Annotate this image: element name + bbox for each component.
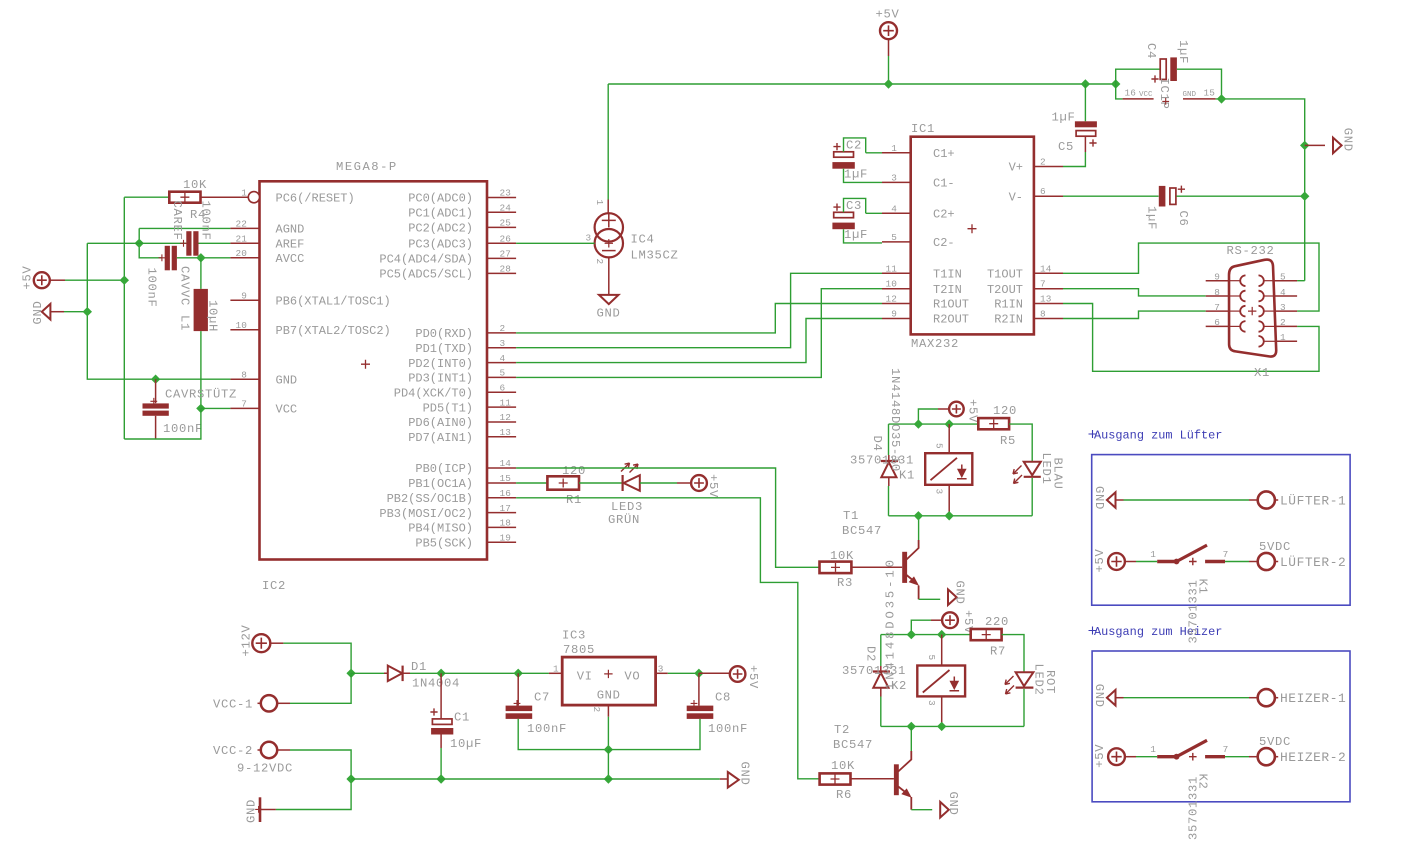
- wire PC3 to LM35 pin3: [516, 242, 595, 244]
- svg-text:VCC-2: VCC-2: [213, 744, 253, 758]
- svg-text:+5V: +5V: [1093, 549, 1107, 573]
- svg-text:K2: K2: [891, 679, 907, 693]
- IC2 pin 18 stub: [487, 526, 516, 528]
- capacitor CAREF plates: [186, 231, 191, 256]
- capacitor CAVRSTUETZ plates: [143, 403, 169, 408]
- IC2 pin 2 stub: [487, 332, 516, 334]
- svg-text:1: 1: [553, 664, 559, 675]
- IC3 pin 2 stub: [607, 705, 609, 717]
- wire D2 anode down: [880, 697, 882, 727]
- svg-text:6: 6: [1214, 317, 1220, 328]
- LÜFTER-2 stub: [1249, 561, 1258, 563]
- svg-text:15: 15: [1204, 88, 1216, 99]
- svg-text:HEIZER-1: HEIZER-1: [1280, 691, 1346, 706]
- svg-text:14: 14: [1040, 263, 1052, 274]
- IC2 pin 21 stub: [230, 242, 259, 244]
- svg-text:PC6(/RESET): PC6(/RESET): [276, 191, 355, 205]
- wire K2 bottom rail: [881, 725, 1024, 727]
- svg-text:PD4(XCK/T0): PD4(XCK/T0): [394, 387, 473, 401]
- svg-text:K1: K1: [899, 469, 915, 483]
- IC4 origin cross: [605, 239, 613, 247]
- IC2 MEGA8-P body: [260, 181, 488, 559]
- svg-text:PC1(ADC1): PC1(ADC1): [408, 207, 473, 221]
- svg-text:GND: GND: [1092, 684, 1106, 708]
- C8 origin cross: [691, 700, 698, 707]
- svg-text:AGND: AGND: [276, 223, 305, 237]
- X1 pin 3 inner lead: [1264, 310, 1275, 312]
- svg-text:C2-: C2-: [933, 236, 955, 250]
- inductor L1 body: [194, 289, 208, 331]
- wire T2OUT to X1 pin8: [1063, 289, 1206, 296]
- svg-text:10K: 10K: [183, 178, 207, 192]
- wire AGND net: [139, 227, 230, 229]
- VCC-2 stub: [277, 749, 290, 751]
- relay contact K2: [1157, 755, 1177, 758]
- svg-text:+5V: +5V: [706, 474, 720, 498]
- capacitor C2 plates: [834, 152, 854, 157]
- svg-text:D2: D2: [864, 646, 878, 662]
- svg-text:5: 5: [1280, 272, 1286, 283]
- svg-text:CAREF: CAREF: [170, 201, 184, 241]
- IC1 pin 11 stub: [882, 272, 911, 274]
- svg-text:C2: C2: [846, 138, 862, 152]
- IC2 pin 27 stub: [487, 257, 516, 259]
- svg-text:VCC-1: VCC-1: [213, 698, 253, 712]
- resistor R1 120: [547, 476, 579, 489]
- svg-text:R7: R7: [990, 645, 1006, 659]
- HEIZER-2 stub: [1249, 756, 1258, 758]
- svg-text:PB2(SS/OC1B): PB2(SS/OC1B): [387, 492, 473, 506]
- wire C2 bottom: [844, 169, 883, 183]
- svg-text:R2OUT: R2OUT: [933, 313, 969, 327]
- diode D2 1N4148: [873, 670, 890, 672]
- svg-text:GND: GND: [953, 581, 967, 605]
- wire +5V to K2 rail: [911, 620, 931, 634]
- svg-text:10µH: 10µH: [206, 300, 220, 332]
- svg-text:C1+: C1+: [933, 147, 955, 161]
- svg-text:PC4(ADC4/SDA): PC4(ADC4/SDA): [379, 253, 473, 267]
- wire T1 emitter to GND: [919, 598, 941, 600]
- ground arrow at bottom rail: [728, 772, 739, 788]
- capacitor C7 plates: [506, 706, 533, 712]
- svg-text:8: 8: [1040, 309, 1046, 320]
- svg-text:C1: C1: [454, 711, 470, 725]
- wire D1 to C1 node: [410, 672, 441, 674]
- svg-text:T1: T1: [843, 509, 859, 523]
- diode D4 1N4148: [881, 460, 898, 462]
- svg-text:7: 7: [1214, 302, 1220, 313]
- capacitor C5 plates: [1075, 121, 1097, 127]
- junction K1 rail A: [914, 419, 923, 428]
- svg-text:10: 10: [885, 279, 897, 290]
- junction K2 rail A: [907, 630, 916, 639]
- svg-text:4: 4: [500, 353, 506, 364]
- X1 pin 9 stub: [1206, 280, 1229, 282]
- svg-text:R3: R3: [837, 576, 853, 590]
- junction C7/C8 gnd: [604, 745, 613, 754]
- IC1 pin 6 stub: [1034, 195, 1063, 197]
- svg-text:X1: X1: [1254, 366, 1270, 380]
- wire +5V rail down to LM35: [607, 84, 609, 200]
- svg-text:7805: 7805: [563, 643, 595, 657]
- svg-text:7: 7: [1040, 279, 1046, 290]
- wire IC3 out to +5V node: [668, 672, 699, 674]
- capacitor C6 plates: [1159, 186, 1166, 207]
- X1 pin 5 socket cup: [1259, 275, 1264, 286]
- C5 bottom stub: [1084, 136, 1086, 152]
- wire R1IN to X1 pin2: [1063, 304, 1319, 372]
- connector pad LÜFTER-2: [1258, 553, 1275, 570]
- junction AVCC/L1 node: [196, 253, 205, 262]
- X1 pin 2 stub: [1275, 325, 1298, 327]
- wire AGND down to AVCC cap: [139, 228, 162, 257]
- resistor R7 220: [971, 629, 1002, 640]
- svg-text:GND: GND: [1092, 486, 1106, 510]
- svg-text:11: 11: [500, 397, 512, 408]
- IC1 pin 4 stub: [882, 212, 911, 214]
- svg-text:100nF: 100nF: [708, 722, 748, 736]
- wire top +5V rail: [608, 83, 1115, 85]
- svg-text:LM35CZ: LM35CZ: [631, 249, 679, 263]
- svg-text:7: 7: [1223, 744, 1229, 755]
- LM35 pin 1 stub: [607, 200, 609, 214]
- wire bottom ground rail: [351, 778, 720, 780]
- svg-text:PD6(AIN0): PD6(AIN0): [408, 416, 473, 430]
- wire R4 to pin1 bubble: [201, 196, 249, 198]
- transistor T1 BC547: [902, 552, 907, 583]
- svg-text:+5V: +5V: [876, 8, 900, 22]
- svg-text:GND: GND: [597, 689, 621, 703]
- resistor R4 10K reset pullup: [169, 192, 200, 203]
- +5V supply symbol left: [34, 272, 50, 288]
- resistor R3 10K: [820, 562, 852, 574]
- +12V supply symbol: [252, 634, 270, 652]
- svg-text:IC2: IC2: [262, 579, 286, 593]
- svg-text:PB5(SCK): PB5(SCK): [415, 536, 473, 550]
- wire C1 bottom stub: [440, 735, 442, 749]
- svg-text:V+: V+: [1009, 161, 1023, 175]
- +5V pin stub: [50, 279, 65, 281]
- junction AGND/AREF node: [135, 239, 144, 248]
- capacitor C1 plates: [432, 719, 452, 725]
- svg-text:T1IN: T1IN: [933, 268, 962, 282]
- svg-text:IC3: IC3: [562, 629, 586, 643]
- svg-text:8: 8: [241, 369, 247, 380]
- svg-text:GND: GND: [31, 301, 45, 325]
- wire C2 to pin: [866, 152, 882, 154]
- junction bottom rail left: [346, 774, 355, 783]
- IC2 pin 23 stub: [487, 197, 516, 199]
- IC1 pin 2 stub: [1034, 166, 1063, 168]
- X1 pin 9 socket cup: [1240, 275, 1245, 286]
- frame 2 origin cross: [1089, 627, 1097, 635]
- IC2 pin 28 stub: [487, 272, 516, 274]
- IC2 pin 25 stub: [487, 226, 516, 228]
- svg-text:1: 1: [1150, 549, 1156, 560]
- wire reset pullup left segment: [124, 196, 169, 198]
- wire K2 +5V rail: [881, 634, 971, 636]
- wire T1 collector up: [918, 516, 920, 540]
- junction C6/GND: [1300, 192, 1309, 201]
- svg-text:9: 9: [891, 309, 897, 320]
- wire to GND pin8: [156, 378, 231, 380]
- svg-text:3: 3: [586, 233, 592, 244]
- svg-text:7: 7: [1223, 549, 1229, 560]
- svg-text:PB0(ICP): PB0(ICP): [415, 462, 473, 476]
- IC2 pin 4 stub: [487, 362, 516, 364]
- svg-text:1: 1: [594, 200, 605, 206]
- +5V stub in K1 frame: [1125, 561, 1136, 563]
- X1 pin 3 socket cup: [1259, 306, 1264, 317]
- junction D1/C1: [436, 669, 445, 678]
- wire K1 +5V rail: [889, 423, 979, 425]
- svg-text:+5V: +5V: [1093, 744, 1107, 768]
- K1 coil pin 3 lead: [948, 485, 950, 516]
- svg-text:PD7(AIN1): PD7(AIN1): [408, 431, 473, 445]
- IC1P pin 16 VCC stub: [1123, 98, 1154, 100]
- +5V stub at LED3: [677, 482, 691, 484]
- wire to D2 cathode: [880, 635, 882, 666]
- svg-text:IC1: IC1: [911, 122, 935, 136]
- wire to C8 bottom: [608, 719, 700, 750]
- svg-text:1µF: 1µF: [1052, 111, 1076, 125]
- relay contact K1: [1157, 560, 1177, 563]
- junction C4/GND15: [1217, 94, 1226, 103]
- K2 coil pin 5 lead: [941, 635, 943, 666]
- svg-text:1: 1: [1280, 332, 1286, 343]
- svg-text:3: 3: [1280, 302, 1286, 313]
- svg-text:5VDC: 5VDC: [1259, 735, 1291, 749]
- +5V supply symbol at K1: [949, 402, 964, 417]
- svg-text:24: 24: [500, 203, 512, 214]
- IC2 pin 14 stub: [487, 467, 516, 469]
- junction C1/rail: [436, 774, 445, 783]
- CAREF origin cross: [180, 240, 187, 247]
- IC2 pin 26 stub: [487, 242, 516, 244]
- wire R7 to LED2: [1002, 635, 1024, 673]
- svg-text:25: 25: [500, 218, 512, 229]
- svg-text:10: 10: [235, 320, 247, 331]
- junction K1 rail B: [945, 419, 954, 428]
- svg-text:BC547: BC547: [842, 524, 882, 538]
- IC1 pin 7 stub: [1034, 288, 1063, 290]
- svg-text:12: 12: [500, 412, 512, 423]
- connector pad GND input: [259, 797, 262, 822]
- wire contact to LÜFTER-2: [1225, 561, 1249, 563]
- svg-text:C8: C8: [715, 691, 731, 705]
- wire +5V to K1 contact: [1136, 561, 1157, 563]
- svg-text:26: 26: [500, 234, 512, 245]
- ground below LM35: [599, 295, 619, 304]
- resistor R6 10K: [820, 773, 851, 784]
- relay K1 coil: [925, 453, 972, 485]
- X1 pin 7 socket cup: [1240, 306, 1245, 317]
- IC2 pin 17 stub: [487, 512, 516, 514]
- CAVRSTUETZ origin cross: [150, 398, 157, 405]
- wire bottom return to VCC node: [124, 408, 201, 439]
- IC2 pin 7 stub: [230, 407, 259, 409]
- svg-text:C2+: C2+: [933, 208, 955, 222]
- IC3 pin 3 stub: [656, 672, 668, 674]
- svg-text:27: 27: [500, 249, 512, 260]
- +5V supply symbol in K2 frame: [1108, 748, 1125, 765]
- GND arrow symbol left: [42, 304, 51, 320]
- junction rail to IC1 power: [1111, 79, 1120, 88]
- svg-text:GND: GND: [946, 792, 960, 816]
- svg-text:MAX232: MAX232: [911, 337, 959, 351]
- svg-text:T2: T2: [834, 723, 850, 737]
- IC2 pin 13 stub: [487, 436, 516, 438]
- LÜFTER-1 stub right: [1249, 499, 1258, 501]
- svg-text:PC5(ADC5/SCL): PC5(ADC5/SCL): [379, 268, 473, 282]
- svg-text:220: 220: [985, 615, 1009, 629]
- svg-text:10µF: 10µF: [450, 737, 482, 751]
- svg-text:R2IN: R2IN: [994, 313, 1023, 327]
- svg-text:R1: R1: [566, 493, 582, 507]
- X1 pin 5 inner lead: [1264, 280, 1275, 282]
- svg-text:PB3(MOSI/OC2): PB3(MOSI/OC2): [379, 507, 473, 521]
- svg-text:D4: D4: [870, 436, 884, 452]
- svg-text:16: 16: [1125, 88, 1137, 99]
- IC2 pin 22 stub: [230, 227, 259, 229]
- C6 polarity plus: [1178, 186, 1185, 193]
- svg-text:PD1(TXD): PD1(TXD): [415, 342, 473, 356]
- svg-text:35701331: 35701331: [850, 454, 914, 468]
- X1 pin 1 inner lead: [1264, 340, 1275, 342]
- C5 polarity plus: [1089, 139, 1096, 146]
- X1 pin 6 inner lead: [1229, 325, 1240, 327]
- svg-text:R5: R5: [1000, 434, 1016, 448]
- capacitor C3 plates: [834, 212, 854, 217]
- junction rail to C5: [1081, 79, 1090, 88]
- svg-text:GND: GND: [1183, 91, 1197, 99]
- X1 pin 7 inner lead: [1229, 310, 1240, 312]
- svg-text:BC547: BC547: [833, 738, 873, 752]
- svg-text:C6: C6: [1176, 211, 1190, 227]
- IC1 pin 1 stub: [882, 152, 911, 154]
- capacitor C4 plates: [1160, 59, 1166, 79]
- svg-text:+5V: +5V: [746, 665, 760, 689]
- X1 pin 2 inner lead: [1264, 325, 1275, 327]
- junction +5V rail / top symbol: [884, 79, 893, 88]
- ground arrow in K1 frame: [1107, 492, 1116, 508]
- svg-text:R1OUT: R1OUT: [933, 298, 969, 312]
- svg-text:1: 1: [1150, 744, 1156, 755]
- junction IC3 out: [694, 669, 703, 678]
- svg-text:K2: K2: [1196, 774, 1210, 790]
- svg-text:PD5(T1): PD5(T1): [423, 401, 473, 415]
- X1 pin 2 socket cup: [1259, 321, 1264, 332]
- wire VCC-2 down to rail: [290, 750, 351, 779]
- svg-text:5: 5: [891, 232, 897, 243]
- svg-text:Ausgang zum Lüfter: Ausgang zum Lüfter: [1094, 429, 1222, 443]
- connector pad VCC-1: [261, 695, 277, 711]
- IC2 pin 9 stub: [230, 299, 259, 301]
- wire V- to C6: [1063, 195, 1159, 197]
- svg-text:13: 13: [500, 427, 512, 438]
- svg-text:21: 21: [235, 234, 247, 245]
- svg-text:120: 120: [562, 464, 586, 478]
- svg-text:4: 4: [891, 203, 897, 214]
- svg-text:T2OUT: T2OUT: [987, 283, 1023, 297]
- svg-text:PC2(ADC2): PC2(ADC2): [408, 222, 473, 236]
- svg-text:GND: GND: [738, 762, 752, 786]
- wire IC3 GND down: [607, 717, 609, 750]
- IC1 MAX232 body: [911, 137, 1034, 335]
- svg-text:PC3(ADC3): PC3(ADC3): [408, 238, 473, 252]
- connector pad VCC-2: [261, 742, 277, 758]
- +12V pin stub: [271, 642, 284, 644]
- svg-text:10K: 10K: [831, 759, 855, 773]
- IC1 pin 14 stub: [1034, 272, 1063, 274]
- wire +5V to vertical rail: [65, 279, 124, 281]
- wire VCC-1 up to node: [290, 673, 351, 703]
- LED3 symbol: [621, 475, 623, 491]
- wire C3 to pin: [866, 212, 882, 214]
- wire PD2 to R2OUT: [516, 319, 882, 363]
- X1 pin 9 inner lead: [1229, 280, 1240, 282]
- svg-text:28: 28: [500, 264, 512, 275]
- svg-text:35701331: 35701331: [842, 664, 906, 678]
- X1 pin 6 stub: [1206, 325, 1229, 327]
- wire C4 right to GND15 node: [1177, 69, 1222, 99]
- IC1 pin 3 stub: [882, 181, 911, 183]
- wire +5V to K1 rail: [918, 409, 938, 424]
- GND input stub: [261, 809, 276, 811]
- IC2 pin 19 stub: [487, 541, 516, 543]
- wire C2 top loop: [844, 138, 866, 153]
- X1 pin 4 inner lead: [1264, 295, 1275, 297]
- wire to IC3 pin1: [518, 672, 549, 674]
- svg-text:GND: GND: [597, 307, 621, 321]
- wire R5 to LED1: [1009, 424, 1032, 462]
- svg-text:PD3(INT1): PD3(INT1): [408, 372, 473, 386]
- junction +5V rail node: [120, 276, 129, 285]
- svg-text:13: 13: [1040, 294, 1052, 305]
- svg-text:6: 6: [1040, 186, 1046, 197]
- wire node to D1: [351, 672, 384, 674]
- K2 contact origin cross: [1189, 753, 1197, 761]
- IC1 pin 8 stub: [1034, 318, 1063, 320]
- +5V output stub: [699, 672, 730, 674]
- svg-text:R6: R6: [836, 788, 852, 802]
- wire T1OUT to X1 pin3: [1063, 243, 1319, 311]
- VCC-1 stub: [277, 702, 290, 704]
- capacitor CAVCC plates: [165, 246, 170, 270]
- wire GND to LÜFTER-1: [1124, 499, 1250, 501]
- svg-text:17: 17: [500, 503, 512, 514]
- wire C3 top loop: [844, 198, 866, 213]
- wire L1 to VCC node: [200, 331, 202, 408]
- svg-text:5: 5: [500, 368, 506, 379]
- svg-text:14: 14: [500, 458, 512, 469]
- C3 polarity plus: [833, 204, 840, 211]
- svg-text:MEGA8-P: MEGA8-P: [336, 160, 398, 174]
- svg-text:C7: C7: [534, 691, 550, 705]
- wire GND net right side: [1216, 99, 1305, 281]
- wire +12V to D1 node: [283, 643, 351, 673]
- svg-text:ROT: ROT: [1043, 670, 1057, 694]
- svg-text:10K: 10K: [830, 549, 854, 563]
- svg-text:AVCC: AVCC: [276, 252, 305, 266]
- svg-text:3: 3: [891, 172, 897, 183]
- junction K2 bottom A: [907, 722, 916, 731]
- svg-text:VCC: VCC: [276, 403, 298, 417]
- svg-text:2: 2: [594, 259, 605, 265]
- svg-text:2: 2: [1040, 157, 1046, 168]
- svg-text:120: 120: [993, 404, 1017, 418]
- svg-text:3: 3: [934, 489, 945, 495]
